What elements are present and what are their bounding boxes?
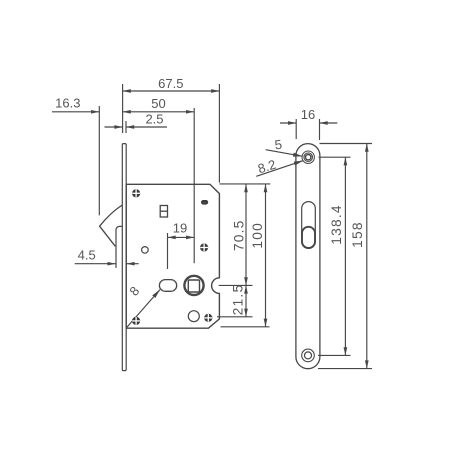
dim 100 dimension line (265, 184, 267, 327)
svg-text:70.5: 70.5 (232, 219, 247, 251)
small slot (top-right) (202, 201, 207, 203)
dim 8.2 leader with arrow (256, 161, 303, 177)
svg-text:5: 5 (274, 137, 283, 153)
dim 158 top reference line (320, 143, 373, 145)
svg-text:158: 158 (350, 221, 365, 248)
svg-text:8.2: 8.2 (256, 157, 278, 177)
dim 21.5 spindle reference line (219, 284, 253, 286)
hook tab (116, 226, 122, 268)
dim 16.3 leader line (52, 111, 99, 113)
strike plate outline (296, 144, 320, 369)
dim 70.5 top reference line (220, 183, 271, 185)
dim 16 dimension arrows (280, 122, 296, 124)
faceplate (122, 144, 126, 371)
dim 50 dimension line (123, 111, 195, 113)
svg-text:50: 50 (151, 96, 165, 111)
dim 138.4 bottom reference line (318, 354, 351, 356)
dim 5 leader with arrow (266, 150, 303, 157)
double window (160, 206, 167, 218)
plate top hole middle (304, 153, 313, 162)
screw D (bottom-right) (204, 314, 212, 322)
screw B (mid-right) (200, 243, 208, 251)
dim 21.5 dimension line (245, 285, 247, 316)
dim 138.4 top reference line (319, 156, 351, 158)
dim 67.5 left extension line (122, 84, 124, 133)
small hole (left) (142, 247, 149, 254)
svg-text:67.5: 67.5 (158, 76, 183, 91)
svg-text:16: 16 (301, 107, 315, 122)
dim 16.3 extension line (98, 106, 100, 215)
dim 19 dimension line (168, 236, 195, 238)
lock body outline (126, 184, 219, 328)
dim 67.5 right extension line (218, 84, 220, 183)
plate top hole inner (306, 155, 311, 160)
dim 16 right extension line (319, 119, 321, 140)
plate bottom hole inner (305, 352, 312, 359)
screw C (bottom-left) (132, 317, 140, 325)
svg-text:2.5: 2.5 (145, 111, 163, 126)
svg-text:138.4: 138.4 (329, 204, 344, 245)
svg-text:4.5: 4.5 (78, 248, 96, 263)
dim 158 bottom reference line (318, 368, 372, 370)
dim 2.5 right extension stub (125, 121, 127, 133)
plate slot (302, 202, 316, 249)
svg-text:19: 19 (173, 221, 187, 236)
dim 21.5 bottom reference line (217, 316, 253, 318)
dim 138.4 dimension line (344, 157, 346, 355)
dim 2.5 dimension arrows (105, 126, 123, 128)
dim 16 left extension line (295, 119, 297, 139)
svg-text:21.5: 21.5 (231, 284, 246, 316)
dim 19 left extension line (167, 233, 169, 269)
dim 8 leader with arrow (127, 290, 160, 328)
plate bottom hole outer (302, 349, 315, 362)
plate top hole outer (302, 151, 314, 163)
spindle square (188, 280, 199, 292)
svg-text:8: 8 (126, 283, 142, 298)
dim 67.5 dimension line (123, 90, 220, 92)
dim 4.5 arrows (75, 263, 116, 265)
spindle hub (184, 276, 203, 295)
svg-text:16.3: 16.3 (55, 96, 80, 111)
oval hole (159, 280, 176, 292)
hook bolt (100, 205, 123, 246)
plate slot hub arc (302, 227, 315, 248)
svg-text:100: 100 (250, 222, 265, 249)
dim 100 bottom reference line (221, 326, 270, 328)
dim 158 dimension line (366, 144, 368, 369)
dim 50 right extension line (193, 108, 195, 263)
dim 70.5 dimension line (245, 184, 247, 285)
handle hole (bottom) (188, 311, 199, 322)
screw A (top-left) (132, 189, 140, 197)
